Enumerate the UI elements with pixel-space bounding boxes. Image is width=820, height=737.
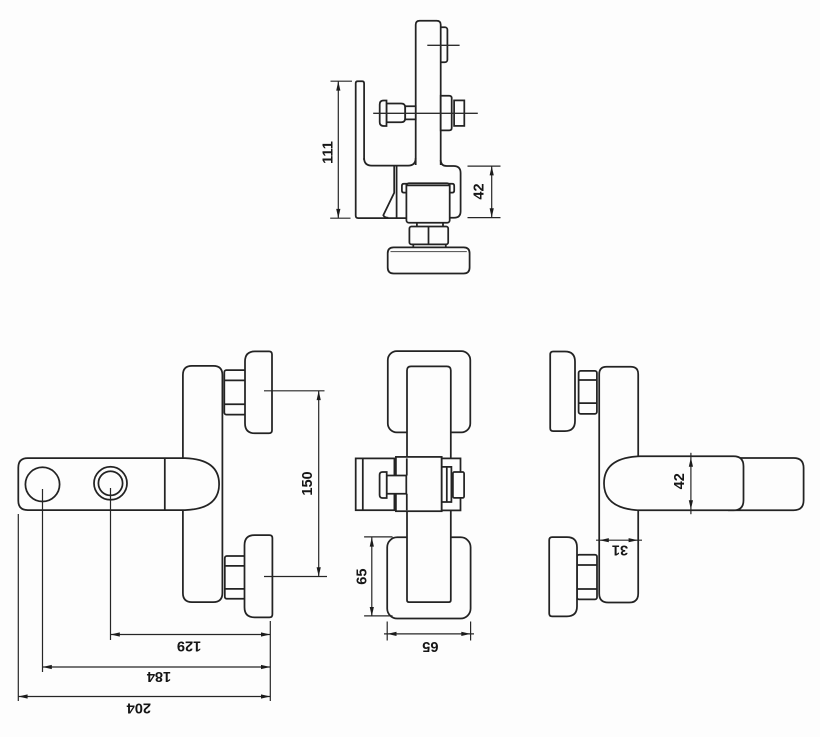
base foot inner line (391, 251, 467, 253)
lever grip (728, 458, 804, 510)
body lower section (407, 510, 451, 602)
upper hex nut (224, 370, 246, 415)
svg-text:111: 111 (320, 141, 336, 164)
mixer body column (183, 366, 223, 602)
handle screw cylinder (387, 104, 406, 123)
valve cover top rim (406, 184, 449, 186)
dimension 129 extension lines (110, 488, 112, 640)
lower nut facet line (225, 565, 246, 567)
svg-text:184: 184 (146, 668, 171, 684)
dimension 65 horizontal extension left (386, 622, 388, 641)
left cap face line (362, 458, 364, 510)
dimension 42 extension line top (468, 165, 501, 167)
svg-text:129: 129 (177, 637, 201, 653)
svg-text:65: 65 (422, 638, 438, 654)
nut-to-base tick left (412, 244, 414, 247)
clip centerline (427, 44, 459, 46)
svg-text:65: 65 (354, 568, 370, 584)
dimension 204 line (18, 696, 270, 698)
dim 42 (top view) (468, 166, 501, 218)
dim 184 (43, 665, 271, 684)
dimension 31 line (596, 539, 642, 541)
wall bracket hook plate (356, 81, 407, 218)
cover-to-nut tick right (442, 223, 444, 227)
upper wall flange (245, 351, 272, 433)
dim 204 (18, 694, 270, 715)
lower escutcheon plate (387, 537, 470, 618)
dim 31 (596, 538, 642, 557)
lower hex nut (right view) (577, 555, 597, 600)
lower wall flange (245, 535, 273, 617)
left knob flange (380, 472, 387, 498)
right cap rings (442, 467, 452, 502)
base foot (388, 247, 470, 273)
upper nut facet line 2 (224, 403, 246, 405)
dimension 42 line (right view) (690, 453, 692, 514)
cartridge cap (441, 96, 452, 131)
spout joint line (164, 458, 166, 510)
lower nut facet (right view) (577, 564, 597, 566)
dimension 111 extension line top (331, 80, 353, 82)
valve housing center (396, 457, 442, 511)
aerator inner circle (98, 471, 122, 495)
valve cover square (406, 183, 449, 223)
lever arm with dome (604, 456, 744, 510)
hook slot floor (364, 158, 416, 166)
body edge through valve (406, 458, 408, 510)
handle screw neck (405, 106, 416, 119)
nut-to-base tick right (445, 244, 447, 247)
spout with domed end (18, 458, 219, 510)
cover-to-nut tick left (416, 223, 418, 227)
spout hole circle (25, 467, 59, 501)
valve cover left ear (402, 184, 407, 193)
screw centerline (373, 112, 478, 114)
vertical rail bar (416, 21, 441, 165)
dim 65 horizontal (384, 622, 474, 654)
upper escutcheon plate (388, 351, 471, 432)
dim 129 (18, 488, 270, 701)
valve left cap (356, 458, 395, 510)
upper wall flange (right view) (550, 352, 575, 432)
lower nut facet line 2 (225, 588, 246, 590)
brace inner edge (396, 166, 398, 218)
valve right cap (442, 458, 461, 510)
dim 111 (320, 81, 352, 218)
lower wall flange (right view) (549, 537, 577, 616)
outlet hex nut (409, 227, 448, 245)
svg-text:150: 150 (300, 471, 316, 495)
dim 65 vertical (354, 537, 392, 616)
outlet nut facet line (428, 227, 430, 245)
upper nut facet (right view) (579, 379, 597, 381)
dimension 65 vertical extension top (364, 536, 392, 538)
svg-text:204: 204 (126, 699, 151, 715)
svg-text:31: 31 (612, 542, 628, 558)
dim 42 (right view) (672, 453, 693, 514)
dim 150 (264, 391, 327, 577)
right side knob (453, 472, 464, 498)
valve cover right ear (450, 184, 455, 193)
body upper section (407, 366, 451, 458)
svg-text:42: 42 (471, 183, 487, 199)
body right step edge (441, 160, 461, 218)
upper hex nut (right view) (579, 371, 597, 414)
lower nut facet 2 (right view) (577, 588, 597, 590)
mixer body column (right view) (599, 367, 638, 603)
aerator outer circle (94, 467, 127, 500)
handle screw head (380, 101, 387, 127)
slider clip tab (439, 27, 447, 62)
svg-text:42: 42 (672, 473, 688, 489)
upper nut facet line (224, 379, 246, 381)
upper nut facet 2 (right view) (579, 402, 597, 404)
lower hex nut (225, 556, 246, 599)
dimension 150 extension line top (264, 390, 325, 392)
brace diagonal strut (383, 166, 394, 218)
left knob stem (387, 476, 407, 494)
dimension 184 line (43, 666, 271, 668)
cartridge hex nut (454, 100, 464, 126)
